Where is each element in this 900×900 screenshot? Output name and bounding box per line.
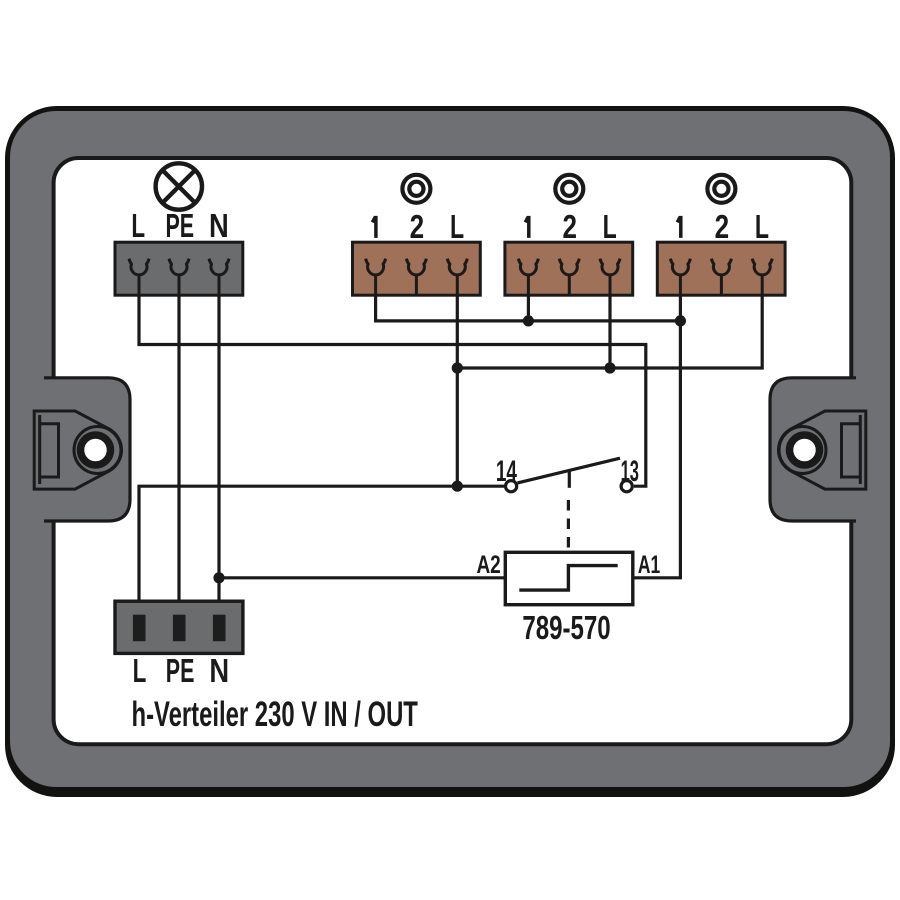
svg-text:L: L: [133, 652, 147, 689]
clamp 1 (block 1): [366, 259, 386, 295]
svg-text:h-Verteiler 230 V IN / OUT: h-Verteiler 230 V IN / OUT: [132, 696, 418, 735]
mounting tab left: [34, 378, 130, 521]
svg-text:A1: A1: [638, 550, 660, 579]
wire: L bus to output block 3 L: [457, 295, 762, 368]
relay coil box U1: [505, 552, 633, 604]
junction: switch line at block1 L: [452, 481, 463, 492]
output terminal block 3 (brown): [657, 242, 785, 295]
supply terminal block (bottom left, grey): [115, 601, 243, 653]
enclosure outer frame: [5, 106, 895, 797]
plate bracket detail: [40, 415, 59, 484]
svg-text:PE: PE: [165, 207, 194, 244]
supply block body: [115, 601, 243, 653]
clamp 2 (block 1): [406, 259, 426, 295]
junction: L bus at block2 L: [604, 362, 615, 373]
switch actuator tick: [568, 472, 571, 488]
wire: relay A2 to N: [219, 576, 505, 579]
output block 2 body: [505, 242, 633, 295]
label 1 (block 3): [677, 216, 681, 238]
svg-text:13: 13: [621, 455, 639, 488]
label 1 (block 2): [525, 216, 529, 238]
lamp outlet symbol above block 2: [555, 175, 583, 203]
junction: A2 line at N wire: [213, 572, 224, 583]
clamp 1 (block 3): [670, 259, 690, 295]
actuator dashed link: [567, 500, 570, 552]
screw hole: [793, 439, 816, 462]
pin N (supply block): [213, 615, 226, 642]
strain relief plate: [778, 411, 865, 489]
screw bushing: [790, 435, 820, 465]
output terminal block 2 (brown): [505, 242, 633, 295]
output block 1 body: [353, 242, 481, 295]
switch contact 13: [621, 481, 632, 492]
junction: L bus at block1 L: [452, 362, 463, 373]
lamp symbol: [156, 163, 202, 209]
junction: terminal1 bus at block2: [523, 315, 534, 326]
wire: output block 3 terminal 1 down to relay A1: [633, 295, 680, 578]
strain relief plate: [34, 411, 121, 489]
clamp 1 (block 2): [518, 259, 538, 295]
label 1 (block 1): [372, 216, 376, 238]
svg-text:2: 2: [410, 209, 424, 246]
wire: lamp block L to switch contact 13: [139, 295, 646, 486]
mounting tab right: [770, 378, 866, 521]
output terminal block 1 (brown): [353, 242, 481, 295]
tab body: [44, 378, 130, 521]
svg-text:789-570: 789-570: [522, 611, 610, 648]
clamp L (block 2): [600, 259, 620, 295]
svg-text:14: 14: [496, 455, 517, 489]
clamp PE (lamp block): [169, 259, 189, 295]
svg-text:2: 2: [715, 209, 729, 246]
terminal block lamp (top left, grey): [115, 242, 243, 295]
svg-text:L: L: [131, 207, 145, 244]
enclosure inner panel: [54, 158, 852, 744]
svg-text:2: 2: [563, 209, 577, 246]
lamp outlet symbol above block 3: [707, 175, 735, 203]
junction: terminal1 bus at block3: [675, 315, 686, 326]
svg-text:L: L: [450, 209, 464, 246]
wire: lamp block PE down to supply block PE pin: [177, 295, 180, 615]
wire: output block 2 L drop: [608, 295, 611, 368]
screw boss outer ring: [74, 427, 121, 474]
wire: output blocks terminal 1 bus: [376, 295, 681, 321]
wire: supply block L up and right to switch contact 14: [139, 486, 504, 615]
switch blade: [518, 458, 621, 483]
clamp 2 (block 3): [711, 259, 731, 295]
pin PE (supply block): [173, 615, 186, 642]
plate bracket detail: [842, 415, 861, 484]
svg-text:A2: A2: [476, 551, 500, 579]
svg-text:L: L: [755, 209, 769, 246]
lamp block body: [115, 242, 243, 295]
screw boss outer ring: [779, 427, 826, 474]
switch contact 14: [506, 481, 517, 492]
output block 3 body: [657, 242, 785, 295]
wire: output block 1 L down to switch line: [456, 295, 459, 486]
clamp L (block 3): [752, 259, 772, 295]
clamp L (block 1): [447, 259, 467, 295]
clamp 2 (block 2): [559, 259, 579, 295]
svg-text:PE: PE: [166, 652, 195, 689]
relay latching symbol: [519, 566, 617, 591]
screw bushing: [81, 435, 111, 465]
svg-text:N: N: [209, 209, 229, 245]
screw hole: [84, 439, 107, 462]
clamp N (lamp block): [209, 259, 229, 295]
wire: lamp block N down to supply block N pin: [217, 295, 220, 615]
svg-text:N: N: [209, 654, 229, 690]
lamp outlet symbol above block 1: [402, 175, 430, 203]
clamp L (lamp block): [129, 259, 149, 295]
pin L (supply block): [133, 615, 146, 642]
svg-text:L: L: [603, 209, 617, 246]
tab body: [770, 378, 856, 521]
wire: output block 2 terminal 1 drop: [527, 295, 530, 321]
